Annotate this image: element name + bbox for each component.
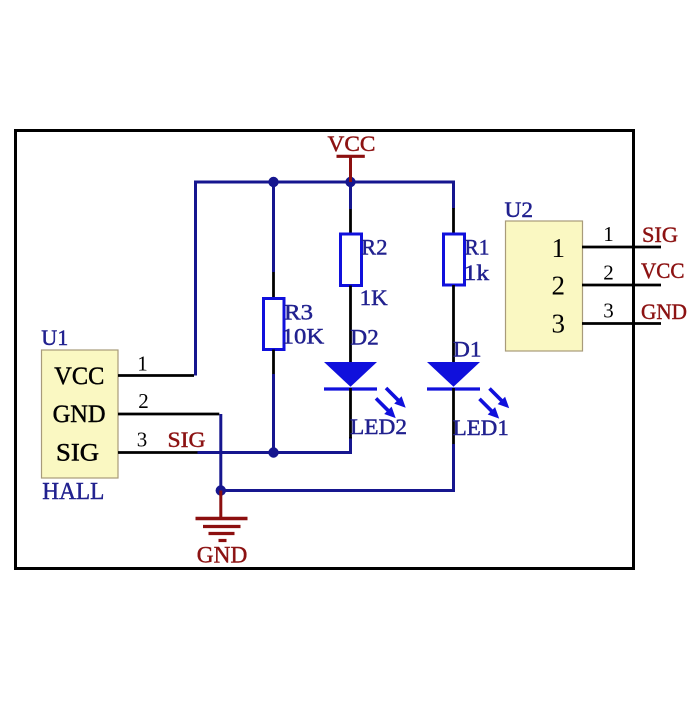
D1 bottom lead <box>452 388 455 444</box>
svg-text:3: 3 <box>603 299 614 323</box>
svg-text:U1: U1 <box>41 325 68 350</box>
wire R3 to SIG net <box>272 374 275 451</box>
wire VCC net: left riser, top bus, R1 drop <box>196 182 454 376</box>
pin lead U2-2 <box>582 284 661 287</box>
D2 light arrows <box>376 388 406 418</box>
node junction GND <box>216 485 226 495</box>
ground stem <box>219 491 222 518</box>
svg-text:GND: GND <box>53 401 106 428</box>
wire R3 tap from VCC bus <box>272 182 275 272</box>
svg-text:SIG: SIG <box>56 440 99 467</box>
ground bar 1 <box>196 517 248 521</box>
node junction VCC/R2 <box>345 177 355 187</box>
D2 anode triangle <box>324 362 377 387</box>
ground bar 2 <box>203 525 241 528</box>
svg-text:VCC: VCC <box>328 131 376 156</box>
pin lead U1-1 <box>118 374 194 377</box>
LED D2 <box>324 325 407 440</box>
pin lead U2-3 <box>582 322 661 325</box>
pin lead U1-2 <box>118 413 219 416</box>
R1 body <box>444 234 465 285</box>
R3 body <box>264 299 285 350</box>
pin lead U2-1 <box>582 246 661 249</box>
svg-text:R3: R3 <box>284 300 313 325</box>
svg-text:U2: U2 <box>505 197 534 222</box>
power port VCC symbol <box>328 131 376 182</box>
ground bar 3 <box>209 532 235 535</box>
R2 bottom lead <box>349 286 352 363</box>
svg-text:VCC: VCC <box>54 363 104 390</box>
D2 bottom lead <box>349 388 352 439</box>
R2 body <box>341 234 362 286</box>
resistor R3 <box>264 272 325 451</box>
svg-text:D2: D2 <box>350 325 379 350</box>
node junction SIG/R3 <box>268 447 278 457</box>
LED D1 <box>427 337 509 445</box>
svg-text:R1: R1 <box>465 235 490 260</box>
wire SIG net: pin3 to LED2 cathode <box>198 437 351 453</box>
svg-text:10K: 10K <box>282 324 325 349</box>
svg-text:1k: 1k <box>464 260 490 285</box>
svg-text:R2: R2 <box>361 235 387 260</box>
svg-text:2: 2 <box>603 261 614 285</box>
svg-text:GND: GND <box>197 543 248 569</box>
component U1 body <box>42 350 119 478</box>
svg-text:3: 3 <box>552 309 566 339</box>
ground GND symbol <box>196 491 248 569</box>
svg-text:HALL: HALL <box>42 479 104 505</box>
svg-text:1: 1 <box>137 352 148 376</box>
D1 anode triangle <box>427 362 480 387</box>
svg-text:1: 1 <box>603 222 614 246</box>
svg-text:1K: 1K <box>360 285 388 310</box>
svg-text:GND: GND <box>641 299 687 324</box>
svg-text:SIG: SIG <box>642 222 678 247</box>
svg-text:D1: D1 <box>453 337 482 362</box>
svg-text:SIG: SIG <box>168 427 206 452</box>
R1 top lead <box>452 208 455 234</box>
R3 top lead <box>272 272 275 299</box>
svg-text:LED2: LED2 <box>350 414 407 439</box>
wire GND net: bottom run to LED1 cathode <box>221 444 454 491</box>
node junction VCC/R3 <box>268 177 278 187</box>
svg-text:2: 2 <box>552 271 566 301</box>
resistor R2 <box>341 209 388 362</box>
resistor R1 <box>444 208 490 362</box>
R1 bottom lead <box>452 285 455 362</box>
svg-text:3: 3 <box>137 428 148 452</box>
svg-text:LED1: LED1 <box>453 415 509 440</box>
sheet border frame <box>16 131 634 569</box>
D1 cathode bar <box>427 387 480 390</box>
D1 light arrows <box>480 389 510 419</box>
R2 top lead <box>349 209 352 234</box>
R3 bottom lead <box>272 350 275 376</box>
wire R2 tap from VCC bus <box>349 182 352 209</box>
VCC symbol stem <box>349 156 352 182</box>
svg-text:VCC: VCC <box>641 258 685 283</box>
D2 cathode bar <box>324 387 377 390</box>
VCC symbol bar <box>337 155 365 158</box>
wire GND net riser from U1 pin 2 <box>219 414 222 491</box>
svg-text:1: 1 <box>552 233 566 263</box>
svg-text:2: 2 <box>138 389 149 413</box>
ground bar 4 <box>219 539 227 542</box>
pin lead U1-3 <box>118 451 199 454</box>
connector U2 body <box>506 221 583 351</box>
